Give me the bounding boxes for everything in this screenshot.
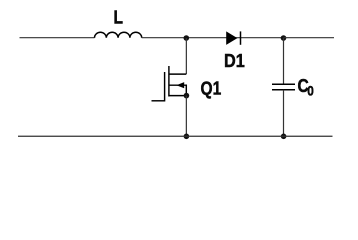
wire: C0 bottom plate down to bottom rail xyxy=(283,90,285,137)
junction dot: C0 at bottom rail xyxy=(281,134,287,140)
capacitor C0 xyxy=(272,84,295,90)
Q1 gate lead xyxy=(152,100,165,102)
svg-text:Q1: Q1 xyxy=(201,78,222,99)
inductor L (coil, 4 humps) xyxy=(95,32,142,37)
C0 top plate xyxy=(272,83,295,85)
transistor Q1 (N-channel MOSFET) xyxy=(152,66,190,102)
Q1 channel line xyxy=(168,66,170,97)
Q1 body-source junction dot xyxy=(184,93,190,99)
svg-text:L: L xyxy=(113,7,122,28)
wire: top rail, input to inductor xyxy=(20,37,95,39)
C0 bottom plate xyxy=(272,89,295,91)
Q1 body arrow (points to channel) xyxy=(176,82,184,88)
wire: node A down to Q1 drain xyxy=(185,38,187,74)
wire: top rail, inductor to diode anode xyxy=(142,37,284,39)
node A: switch-node junction dot xyxy=(184,35,190,41)
Q1 source stub xyxy=(169,95,186,97)
wire: top rail, output node to right edge xyxy=(284,37,335,39)
junction dot: Q1 source at bottom rail xyxy=(184,134,190,140)
wire: Q1 source down to bottom rail xyxy=(185,96,187,137)
wire: node B down to C0 top plate xyxy=(283,38,285,84)
svg-text:D1: D1 xyxy=(224,50,245,71)
svg-text:0: 0 xyxy=(307,83,314,99)
node B: output junction dot xyxy=(281,35,287,41)
Q1 body stub with corner down to source xyxy=(169,85,186,95)
wire: bottom rail xyxy=(18,135,333,137)
diode D1 xyxy=(227,31,241,44)
Q1 gate plate xyxy=(164,72,166,102)
Q1 drain stub xyxy=(169,73,186,75)
